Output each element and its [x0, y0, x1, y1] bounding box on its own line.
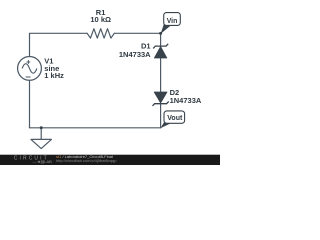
svg-text:10 kΩ: 10 kΩ [90, 15, 111, 24]
svg-text:Vout: Vout [167, 115, 183, 122]
svg-text:1 kHz: 1 kHz [44, 71, 64, 80]
svg-text:—◄▤LAB: —◄▤LAB [32, 159, 52, 164]
svg-text:Vin: Vin [167, 18, 178, 25]
svg-text:1N4733A: 1N4733A [170, 96, 202, 105]
svg-text:1N4733A: 1N4733A [119, 50, 151, 59]
svg-text:http://circuitlab.com/c/4j5bat: http://circuitlab.com/c/4j5bat6vqqp [56, 158, 117, 163]
